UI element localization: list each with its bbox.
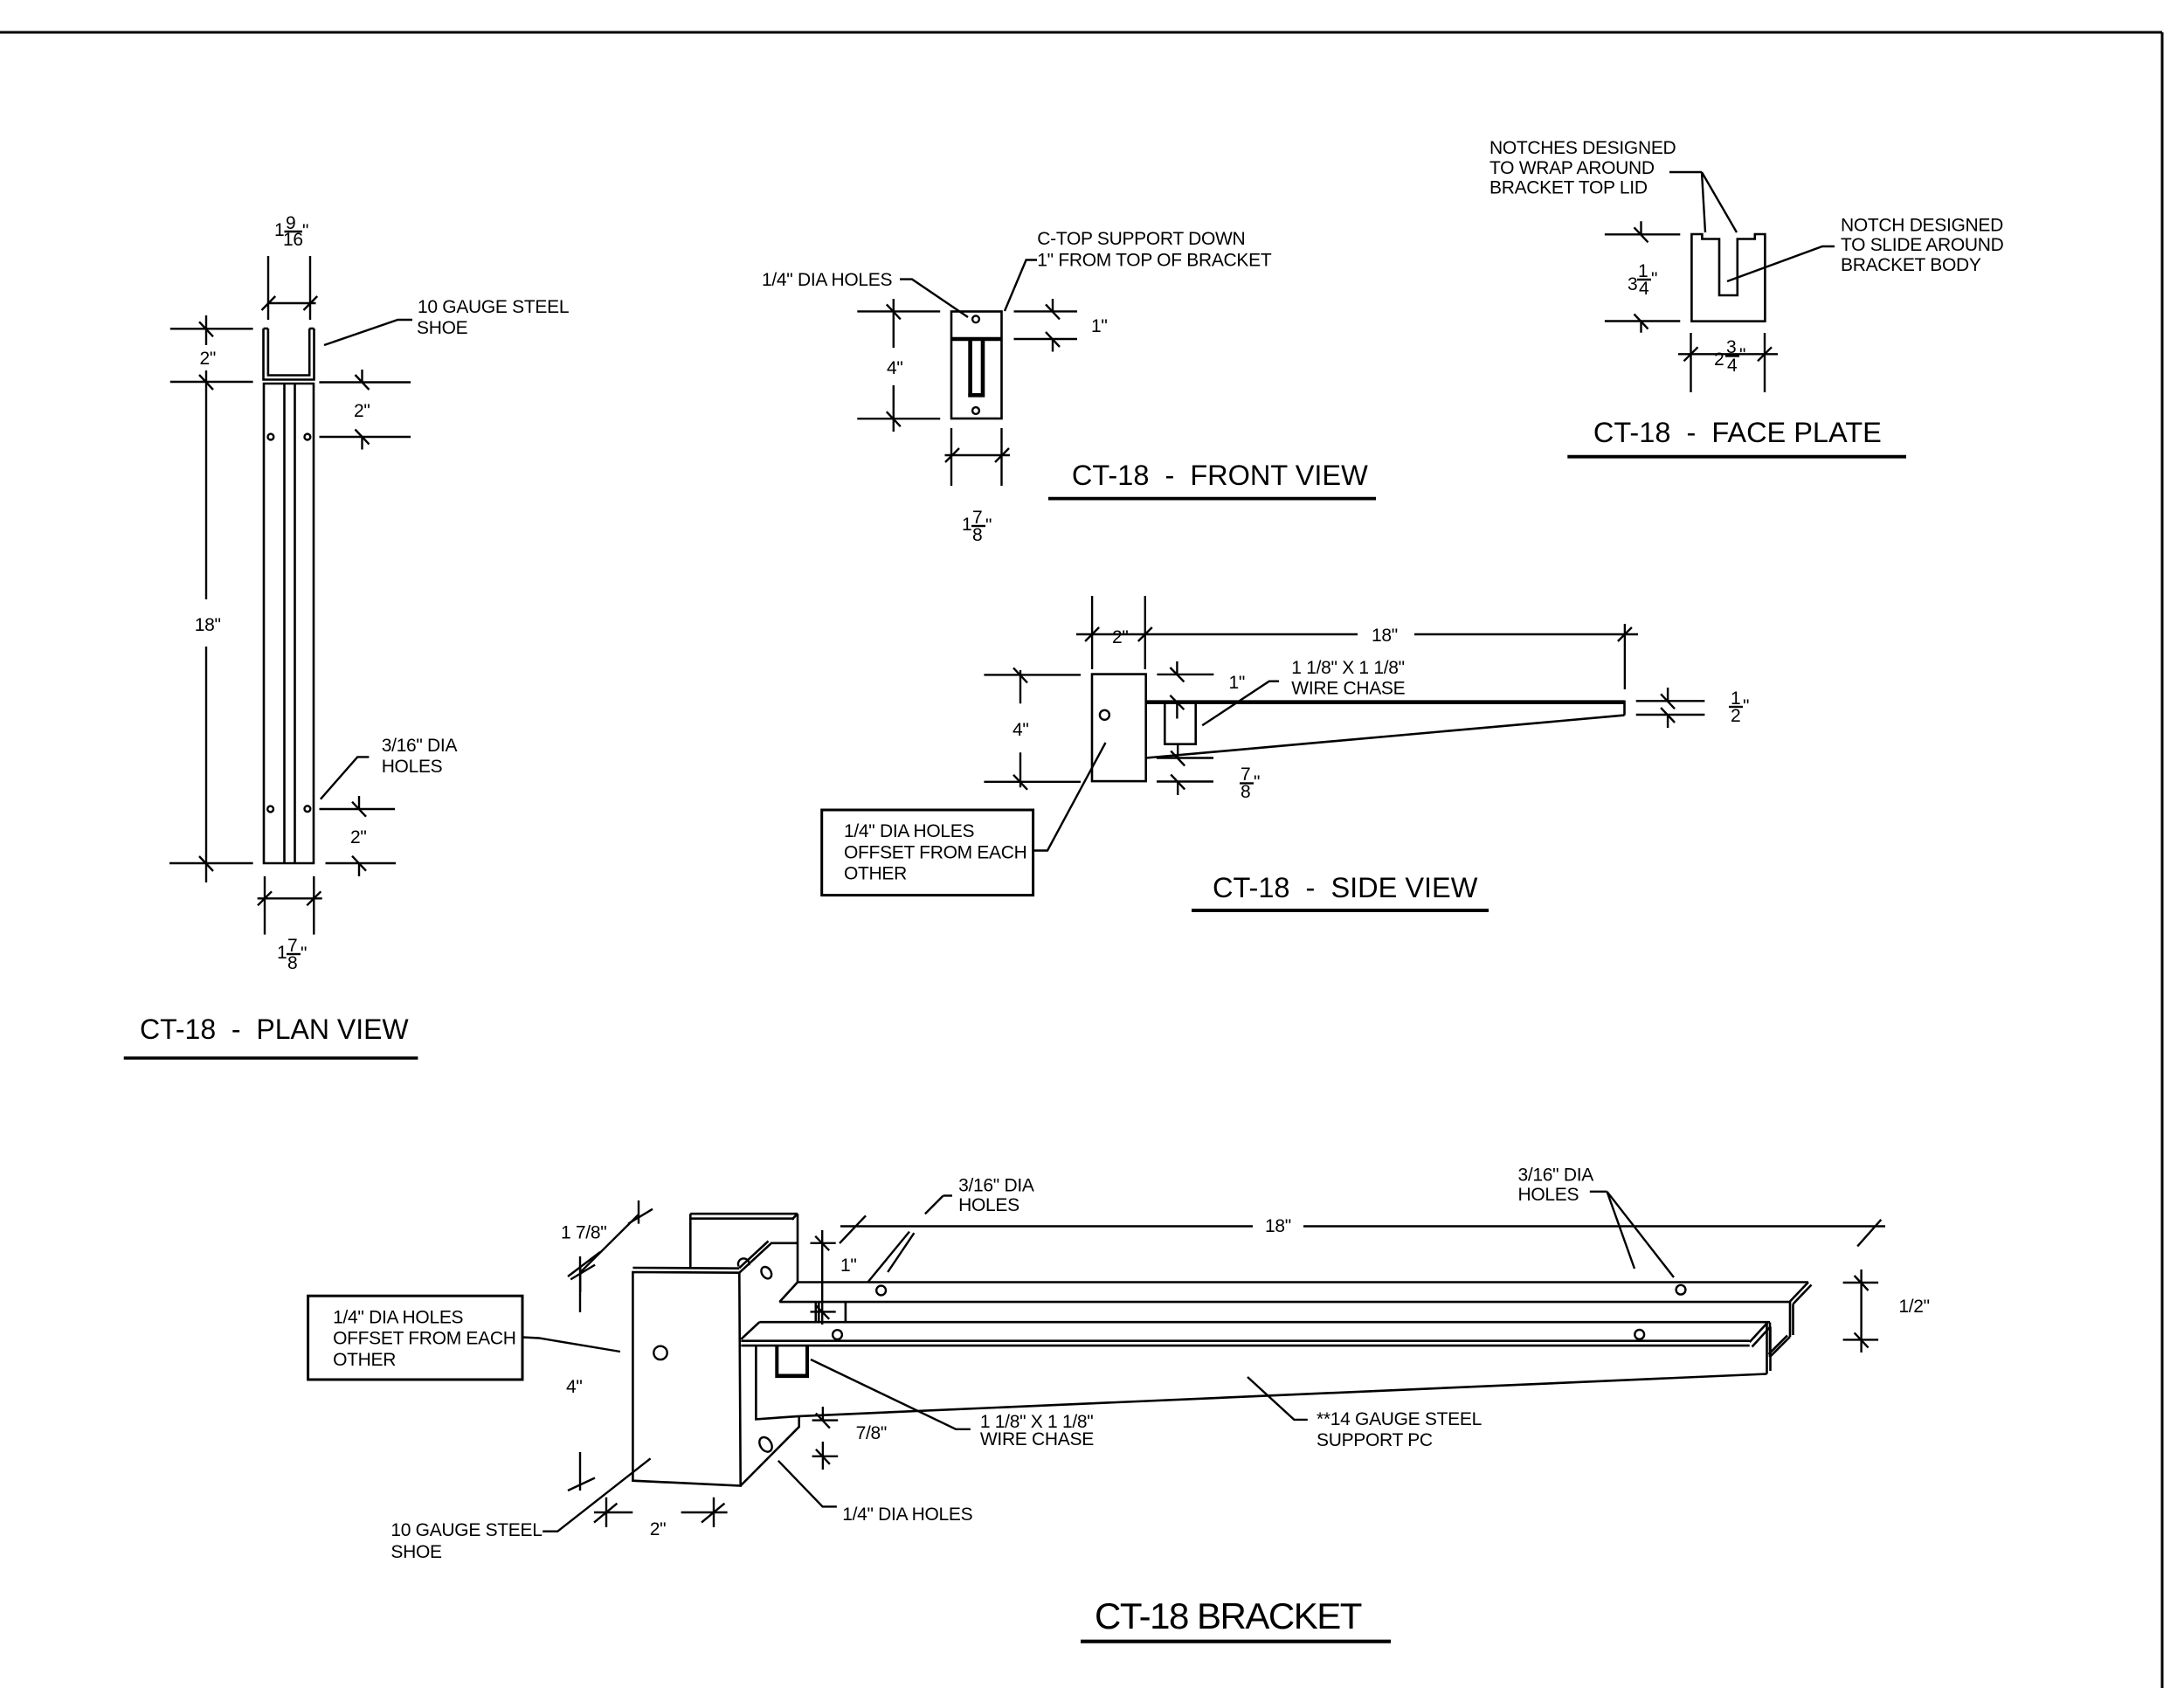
svg-text:3/16" DIA: 3/16" DIA	[1518, 1165, 1594, 1185]
svg-text:2: 2	[1731, 706, 1740, 726]
iso lid left depth edge	[779, 1283, 798, 1303]
iso label 3/16 dia holes right	[1518, 1165, 1675, 1277]
face label NOTCH DESIGNED	[1727, 216, 2004, 282]
svg-text:SUPPORT PC: SUPPORT PC	[1317, 1430, 1433, 1450]
side arm tip cap	[1623, 701, 1626, 716]
svg-text:3/16" DIA: 3/16" DIA	[958, 1176, 1034, 1196]
plan dim 2 right top	[319, 370, 411, 450]
svg-text:1/4" DIA HOLES: 1/4" DIA HOLES	[844, 821, 974, 841]
svg-text:4": 4"	[566, 1377, 583, 1397]
svg-text:SHOE: SHOE	[390, 1542, 442, 1562]
side dim 7/8	[1157, 744, 1260, 802]
border frame right line	[2161, 32, 2164, 1688]
svg-text:2": 2"	[350, 827, 367, 847]
side dim 18 top	[1372, 624, 1638, 689]
svg-text:": "	[302, 221, 308, 241]
svg-text:1/4" DIA HOLES: 1/4" DIA HOLES	[842, 1505, 972, 1525]
svg-text:CT-18 - FACE PLATE: CT-18 - FACE PLATE	[1593, 417, 1882, 448]
svg-text:CT-18 BRACKET: CT-18 BRACKET	[1095, 1595, 1362, 1636]
front hole bottom	[972, 407, 979, 414]
plan hole top-right	[305, 434, 311, 440]
svg-text:OTHER: OTHER	[333, 1350, 396, 1370]
front dim 4 left	[857, 299, 940, 432]
svg-text:8: 8	[1241, 782, 1250, 802]
face plate outline	[1691, 234, 1765, 322]
iso wire chase cutout in channel	[816, 1302, 846, 1322]
front T slot thick bar	[951, 337, 1002, 342]
iso arm hole lower-right	[1635, 1330, 1644, 1339]
iso arm hole top-right	[1676, 1285, 1686, 1295]
svg-text:OTHER: OTHER	[844, 863, 907, 883]
iso shoe side wall top edges	[739, 1242, 798, 1273]
svg-text:1/2": 1/2"	[1898, 1297, 1929, 1317]
svg-text:18": 18"	[1265, 1216, 1291, 1236]
iso arm hole lower-left	[833, 1330, 842, 1339]
svg-text:7/8": 7/8"	[856, 1423, 887, 1443]
svg-text:2": 2"	[200, 349, 217, 369]
svg-text:CT-18 - SIDE VIEW: CT-18 - SIDE VIEW	[1213, 872, 1478, 903]
face plate title	[1567, 417, 1906, 457]
iso back plate hole peeking	[738, 1258, 750, 1266]
svg-text:2": 2"	[650, 1519, 667, 1539]
iso label 3/16 dia holes left	[867, 1176, 1034, 1283]
svg-text:CT-18 - PLAN VIEW: CT-18 - PLAN VIEW	[140, 1013, 409, 1045]
plan hole top-left	[268, 434, 274, 440]
iso arm flange bottom depth double	[1769, 1336, 1791, 1358]
iso support front band L4 L5	[741, 1341, 1749, 1346]
svg-text:": "	[1651, 269, 1657, 289]
svg-text:4: 4	[1727, 356, 1738, 376]
side arm top thick line	[1146, 700, 1625, 704]
svg-text:BRACKET TOP LID: BRACKET TOP LID	[1489, 178, 1648, 198]
side view title	[1192, 872, 1489, 910]
svg-text:": "	[1743, 696, 1749, 716]
svg-text:BRACKET BODY: BRACKET BODY	[1841, 255, 1981, 275]
front label C-TOP SUPPORT DOWN	[1005, 229, 1272, 311]
svg-text:10 GAUGE STEEL: 10 GAUGE STEEL	[390, 1520, 542, 1540]
front label 1/4 DIA HOLES	[762, 270, 968, 317]
side dim 4 left	[984, 668, 1081, 789]
svg-text:": "	[1739, 345, 1745, 365]
front T slot channel	[968, 339, 985, 395]
side dim 1	[1157, 661, 1245, 719]
iso support lip verticals	[1767, 1324, 1771, 1374]
side support taper line	[1146, 716, 1625, 758]
iso shoe side wall bottom edge	[741, 1416, 799, 1486]
iso bracket title	[1081, 1595, 1391, 1642]
iso arm right flange verticals	[1790, 1302, 1794, 1338]
side label wire chase	[1202, 658, 1405, 725]
svg-text:HOLES: HOLES	[1518, 1185, 1579, 1205]
front dim 1 right	[1014, 299, 1108, 352]
plan dim 18 left	[169, 615, 253, 882]
svg-text:1": 1"	[1229, 673, 1246, 693]
svg-text:SHOE: SHOE	[417, 318, 468, 338]
svg-text:4: 4	[1639, 279, 1649, 299]
plan dim 1 7/8 bottom	[258, 876, 322, 973]
iso dim 18 top	[840, 1215, 1885, 1246]
plan dim 2 left (shoe height)	[170, 315, 253, 599]
front plate outline	[951, 312, 1002, 419]
svg-text:1": 1"	[840, 1256, 857, 1276]
iso support top back edge L3	[759, 1321, 1770, 1324]
iso front plate hole	[653, 1346, 667, 1359]
svg-text:NOTCH DESIGNED: NOTCH DESIGNED	[1841, 216, 2003, 236]
svg-text:10 GAUGE STEEL: 10 GAUGE STEEL	[418, 297, 569, 317]
iso shoe front plate	[632, 1268, 740, 1486]
svg-text:16: 16	[283, 230, 303, 250]
iso side wall hole upper	[759, 1265, 774, 1281]
svg-text:HOLES: HOLES	[382, 757, 443, 777]
iso label 1/4 dia holes	[778, 1461, 973, 1525]
front hole top	[972, 315, 979, 322]
plan shoe U channel	[264, 329, 314, 380]
iso label 1 1/8 wire chase	[811, 1359, 1094, 1449]
svg-text:4": 4"	[887, 358, 903, 378]
iso dim 4 left	[566, 1252, 600, 1491]
svg-text:": "	[985, 515, 992, 536]
svg-text:3: 3	[1628, 274, 1637, 294]
svg-text:TO SLIDE AROUND: TO SLIDE AROUND	[1841, 235, 2004, 255]
iso shoe back plate	[690, 1214, 798, 1282]
iso dim 1/2 right	[1843, 1269, 1930, 1352]
side dim 1/2 right	[1636, 688, 1749, 728]
front dim 1 7/8 bottom	[945, 428, 1011, 545]
svg-text:HOLES: HOLES	[958, 1195, 1019, 1215]
iso dim 1	[811, 1230, 857, 1325]
plan hole bottom-right	[305, 806, 311, 812]
iso dim 7/8	[812, 1407, 887, 1470]
border frame top line	[0, 31, 2162, 34]
svg-text:CT-18 - FRONT VIEW: CT-18 - FRONT VIEW	[1072, 460, 1368, 491]
plan hole bottom-left	[267, 806, 273, 813]
iso support lip diagonal	[1750, 1323, 1771, 1347]
svg-text:8: 8	[287, 953, 297, 973]
svg-text:1": 1"	[1091, 316, 1108, 336]
iso dim 1 7/8 oblique	[561, 1200, 653, 1292]
iso label 14 gauge steel support pc	[1248, 1377, 1482, 1450]
svg-text:1 1/8" X 1 1/8": 1 1/8" X 1 1/8"	[1291, 658, 1405, 678]
svg-text:": "	[301, 944, 307, 964]
iso support left depth edge	[741, 1322, 759, 1339]
svg-text:WIRE CHASE: WIRE CHASE	[1291, 679, 1405, 699]
iso label 10 gauge steel shoe	[390, 1458, 650, 1562]
plan support bar outline	[264, 384, 314, 863]
iso arm top back edge L1	[798, 1281, 1808, 1283]
plan view title	[124, 1013, 418, 1058]
svg-text:": "	[1254, 772, 1260, 792]
iso note box 1/4 dia holes offset	[308, 1296, 620, 1380]
side wire chase box	[1165, 704, 1195, 744]
plan label 3/16 DIA HOLES	[321, 736, 458, 799]
plan support pc inner lines	[285, 384, 295, 863]
svg-text:3/16" DIA: 3/16" DIA	[382, 736, 458, 756]
svg-text:1/4" DIA HOLES: 1/4" DIA HOLES	[333, 1308, 463, 1328]
face dim 2 3/4 bottom	[1678, 333, 1778, 392]
svg-text:1 7/8": 1 7/8"	[561, 1223, 606, 1243]
svg-text:1: 1	[277, 943, 287, 963]
svg-text:WIRE CHASE: WIRE CHASE	[980, 1429, 1094, 1449]
iso support taper bottom edge	[799, 1374, 1767, 1416]
svg-text:2: 2	[1714, 349, 1724, 370]
iso channel inner vertical	[1769, 1323, 1772, 1358]
iso wire chase hanging box	[775, 1346, 809, 1376]
svg-text:C-TOP SUPPORT DOWN: C-TOP SUPPORT DOWN	[1037, 229, 1245, 249]
iso side wall hole lower	[757, 1435, 774, 1454]
plan dim 1 9/16 top	[262, 213, 318, 320]
svg-text:3: 3	[1726, 337, 1736, 357]
svg-text:2": 2"	[354, 401, 370, 421]
face dim 3 1/4 left	[1605, 221, 1680, 332]
plan dim 2 right bottom	[320, 796, 397, 876]
svg-text:OFFSET FROM EACH: OFFSET FROM EACH	[844, 843, 1027, 863]
iso arm hole top-left	[876, 1286, 886, 1296]
iso arm right depth edge double	[1790, 1283, 1812, 1304]
svg-text:2": 2"	[1112, 627, 1129, 647]
svg-text:8: 8	[972, 525, 982, 545]
svg-text:**14 GAUGE STEEL: **14 GAUGE STEEL	[1317, 1409, 1482, 1429]
side dim 2 top	[1076, 596, 1358, 669]
side shoe hole	[1100, 710, 1109, 720]
svg-text:18": 18"	[1372, 626, 1398, 646]
svg-text:OFFSET FROM EACH: OFFSET FROM EACH	[333, 1329, 515, 1349]
svg-text:18": 18"	[195, 615, 221, 635]
iso arm top front edge L2	[779, 1301, 1790, 1304]
iso support left end face	[756, 1346, 798, 1419]
svg-text:1: 1	[962, 515, 971, 535]
svg-text:NOTCHES DESIGNED: NOTCHES DESIGNED	[1489, 138, 1676, 158]
front view title	[1048, 460, 1376, 499]
svg-text:1" FROM TOP OF BRACKET: 1" FROM TOP OF BRACKET	[1037, 251, 1272, 271]
face label NOTCHES DESIGNED	[1489, 138, 1737, 232]
svg-text:TO WRAP AROUND: TO WRAP AROUND	[1489, 158, 1655, 178]
iso dim 2 bottom	[594, 1498, 728, 1539]
svg-text:4": 4"	[1013, 720, 1029, 740]
svg-text:1/4" DIA HOLES: 1/4" DIA HOLES	[762, 270, 892, 290]
side note box 1/4 dia holes offset	[822, 743, 1106, 896]
plan label 10 GAUGE STEEL SHOE	[324, 297, 569, 345]
side shoe rectangle	[1092, 675, 1146, 782]
